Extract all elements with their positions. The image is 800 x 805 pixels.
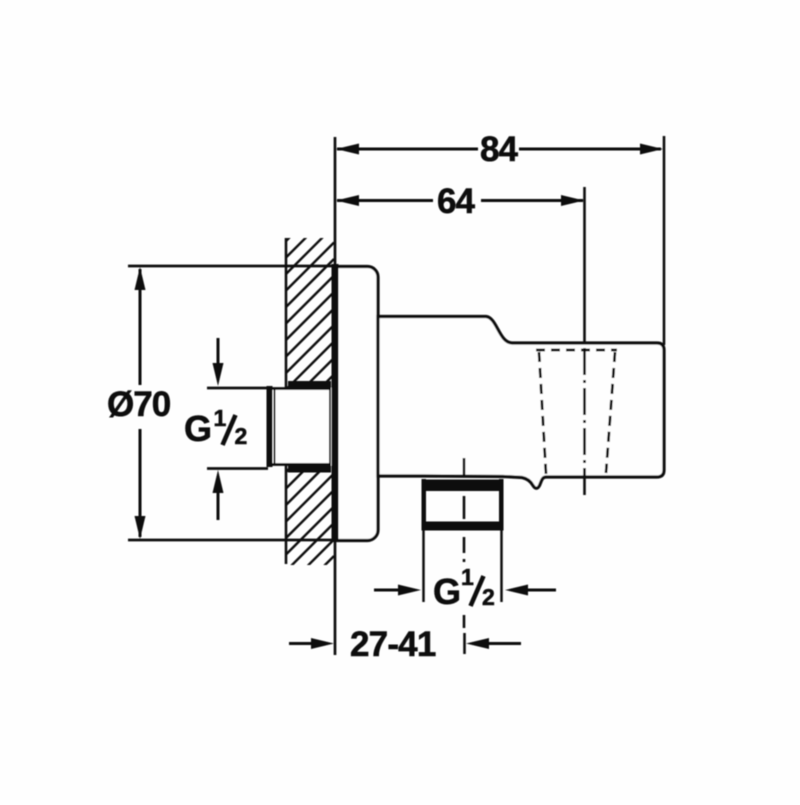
svg-text:2: 2 (482, 584, 495, 610)
flange (wall rosette) (335, 267, 378, 541)
svg-text:1: 1 (214, 405, 227, 431)
wall hole (white gap behind nipple) (288, 388, 332, 466)
dim 27-41 (289, 642, 313, 645)
svg-text:G: G (184, 408, 212, 449)
centerline of holder / 64 extension (583, 187, 586, 343)
dim D70 (128, 265, 336, 268)
outlet nipple (bottom G1/2) (422, 480, 504, 492)
wall hatching (285, 193, 334, 605)
wall face / mount line (thin full, thick at flange) (334, 137, 337, 655)
body arm (378, 317, 664, 489)
svg-text:64: 64 (437, 182, 475, 221)
svg-text:Ø70: Ø70 (107, 385, 171, 424)
svg-text:84: 84 (480, 130, 518, 169)
wall nipple (G1/2 inlet) (267, 389, 330, 465)
dashed cone (hand-shower holder, hidden) (536, 349, 617, 352)
dim 64 (337, 199, 433, 202)
svg-text:2: 2 (235, 423, 248, 449)
wall left edge (285, 238, 288, 564)
svg-text:1: 1 (461, 564, 474, 590)
dim 84 (663, 136, 666, 345)
dim G1/2 left (207, 387, 268, 390)
dim G1/2 bottom (374, 589, 399, 592)
svg-text:27-41: 27-41 (350, 625, 436, 664)
svg-text:G: G (433, 571, 461, 612)
centerline of outlet (463, 458, 466, 654)
